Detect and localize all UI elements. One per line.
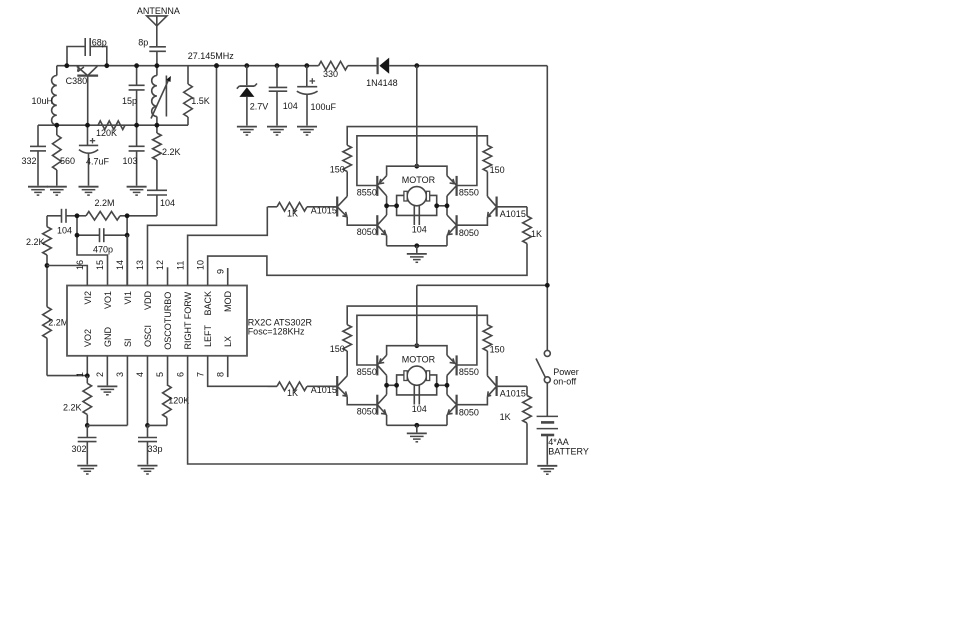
svg-text:VI2: VI2 xyxy=(83,291,93,305)
svg-text:104: 104 xyxy=(412,404,427,414)
svg-text:VI1: VI1 xyxy=(123,291,133,305)
svg-text:C380: C380 xyxy=(66,76,88,86)
svg-text:MOTOR: MOTOR xyxy=(402,355,436,365)
svg-text:OSCOTURBO: OSCOTURBO xyxy=(163,292,173,350)
svg-text:11: 11 xyxy=(175,261,185,270)
svg-text:2.2M: 2.2M xyxy=(95,198,115,208)
svg-text:5: 5 xyxy=(155,372,165,377)
svg-text:4.7uF: 4.7uF xyxy=(86,157,110,167)
svg-text:BACK: BACK xyxy=(203,291,213,316)
svg-text:68p: 68p xyxy=(92,38,107,48)
svg-text:Power: Power xyxy=(553,367,579,377)
svg-text:8550: 8550 xyxy=(357,187,377,197)
svg-text:330: 330 xyxy=(323,69,338,79)
svg-text:MOTOR: MOTOR xyxy=(402,175,436,185)
svg-text:104: 104 xyxy=(412,225,427,235)
svg-text:8050: 8050 xyxy=(357,227,377,237)
svg-text:10: 10 xyxy=(195,260,205,270)
svg-text:1N4148: 1N4148 xyxy=(366,78,398,88)
svg-text:150: 150 xyxy=(330,344,345,354)
svg-text:Fosc=128KHz: Fosc=128KHz xyxy=(248,327,305,337)
svg-text:1K: 1K xyxy=(500,412,511,422)
svg-text:100uF: 100uF xyxy=(311,102,337,112)
svg-text:8550: 8550 xyxy=(357,367,377,377)
svg-text:560: 560 xyxy=(60,156,75,166)
svg-text:8p: 8p xyxy=(138,38,148,48)
svg-text:2.7V: 2.7V xyxy=(250,102,269,112)
svg-text:2.2K: 2.2K xyxy=(26,237,45,247)
svg-text:12: 12 xyxy=(155,260,165,270)
svg-text:GND: GND xyxy=(103,327,113,348)
svg-text:8050: 8050 xyxy=(357,407,377,417)
svg-text:A1015: A1015 xyxy=(500,388,526,398)
svg-text:on-off: on-off xyxy=(553,377,576,387)
svg-text:A1015: A1015 xyxy=(500,209,526,219)
svg-text:LX: LX xyxy=(223,336,233,347)
svg-text:1: 1 xyxy=(75,372,85,377)
svg-text:2: 2 xyxy=(95,372,105,377)
svg-text:1.5K: 1.5K xyxy=(191,96,210,106)
svg-text:13: 13 xyxy=(135,260,145,270)
svg-text:BATTERY: BATTERY xyxy=(548,447,589,457)
svg-text:33p: 33p xyxy=(148,444,163,454)
svg-text:VO2: VO2 xyxy=(83,329,93,347)
svg-text:4: 4 xyxy=(135,372,145,377)
svg-text:VDD: VDD xyxy=(143,291,153,311)
svg-text:2.2K: 2.2K xyxy=(63,403,82,413)
svg-text:104: 104 xyxy=(57,226,72,236)
svg-text:MOD: MOD xyxy=(223,291,233,312)
svg-text:7: 7 xyxy=(195,372,205,377)
svg-text:OSCI: OSCI xyxy=(143,325,153,347)
svg-text:SI: SI xyxy=(123,338,133,347)
svg-text:332: 332 xyxy=(21,156,36,166)
svg-text:120K: 120K xyxy=(96,128,117,138)
svg-text:14: 14 xyxy=(115,260,125,270)
svg-text:LEFT: LEFT xyxy=(203,324,213,347)
svg-text:15p: 15p xyxy=(122,96,137,106)
svg-text:9: 9 xyxy=(215,269,225,274)
svg-text:302: 302 xyxy=(72,444,87,454)
svg-text:1K: 1K xyxy=(287,209,298,219)
svg-text:1K: 1K xyxy=(287,388,298,398)
svg-text:150: 150 xyxy=(490,165,505,175)
svg-text:8050: 8050 xyxy=(459,228,479,238)
svg-text:8550: 8550 xyxy=(459,367,479,377)
svg-text:8: 8 xyxy=(215,372,225,377)
svg-text:120K: 120K xyxy=(168,396,189,406)
svg-text:104: 104 xyxy=(160,198,175,208)
svg-text:VO1: VO1 xyxy=(103,291,113,309)
svg-text:103: 103 xyxy=(123,156,138,166)
svg-text:ANTENNA: ANTENNA xyxy=(137,6,180,16)
svg-text:2.2K: 2.2K xyxy=(162,147,181,157)
svg-text:470p: 470p xyxy=(93,245,113,255)
svg-text:27.145MHz: 27.145MHz xyxy=(188,51,235,61)
svg-text:10uH: 10uH xyxy=(31,96,53,106)
svg-text:4*AA: 4*AA xyxy=(548,437,569,447)
svg-text:6: 6 xyxy=(175,372,185,377)
svg-text:8050: 8050 xyxy=(459,408,479,418)
svg-text:150: 150 xyxy=(330,164,345,174)
svg-text:8550: 8550 xyxy=(459,187,479,197)
svg-text:15: 15 xyxy=(95,260,105,270)
svg-text:1K: 1K xyxy=(531,229,542,239)
svg-text:104: 104 xyxy=(283,101,298,111)
svg-text:2.2M: 2.2M xyxy=(48,318,68,328)
svg-text:16: 16 xyxy=(75,260,85,270)
svg-text:RIGHT FORW: RIGHT FORW xyxy=(183,291,193,349)
svg-text:150: 150 xyxy=(490,345,505,355)
svg-text:3: 3 xyxy=(115,372,125,377)
